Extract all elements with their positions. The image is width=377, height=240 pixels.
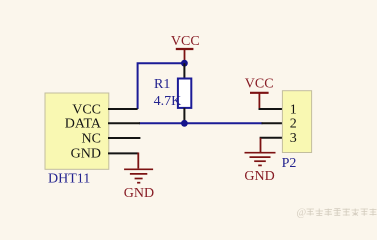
svg-text:GND: GND — [71, 147, 101, 162]
svg-text:1: 1 — [290, 102, 297, 117]
wire DATA net (horizontal) — [139, 122, 263, 124]
pin P2.2 stub — [262, 122, 283, 124]
power port GND (left, below DHT11) — [124, 153, 154, 201]
junction node DATA / R1 bottom — [181, 120, 188, 127]
junction node at R1 top / VCC — [181, 60, 188, 67]
power port VCC (top, above R1) — [171, 34, 200, 61]
svg-text:NC: NC — [82, 131, 101, 146]
pin DHT11.DATA — [108, 122, 140, 124]
resistor R1 body — [178, 79, 191, 108]
pin DHT11.VCC — [108, 108, 138, 110]
svg-text:3: 3 — [290, 131, 297, 146]
component DHT11 body — [45, 93, 109, 169]
connector P2 body — [282, 91, 311, 153]
pin R1.1 (top, black) — [183, 63, 185, 79]
pin P2.1 stub (to VCC) — [259, 108, 283, 110]
svg-text:@: @ — [297, 208, 307, 219]
watermark — [297, 208, 377, 219]
svg-text:VCC: VCC — [171, 34, 200, 49]
svg-text:DHT11: DHT11 — [48, 171, 90, 186]
pin DHT11.NC — [108, 137, 140, 139]
svg-text:R1: R1 — [154, 77, 170, 92]
power port VCC (right, for P2 pin 1) — [245, 77, 274, 109]
svg-text:GND: GND — [124, 186, 154, 201]
svg-text:4.7K: 4.7K — [154, 94, 182, 109]
svg-text:GND: GND — [244, 169, 274, 184]
svg-text:P2: P2 — [282, 156, 297, 171]
svg-text:VCC: VCC — [245, 77, 274, 92]
svg-text:VCC: VCC — [72, 102, 101, 117]
svg-text:2: 2 — [290, 117, 297, 132]
wire VCC net: DHT11 VCC pin up and over to R1 top — [138, 63, 185, 109]
pin R1.2 (bottom, black) — [183, 108, 185, 123]
pin P2.3 stub — [260, 137, 283, 139]
pin DHT11.GND — [108, 152, 138, 154]
svg-text:DATA: DATA — [65, 117, 102, 132]
power port GND (right, for P2 pin 3) — [244, 138, 275, 184]
